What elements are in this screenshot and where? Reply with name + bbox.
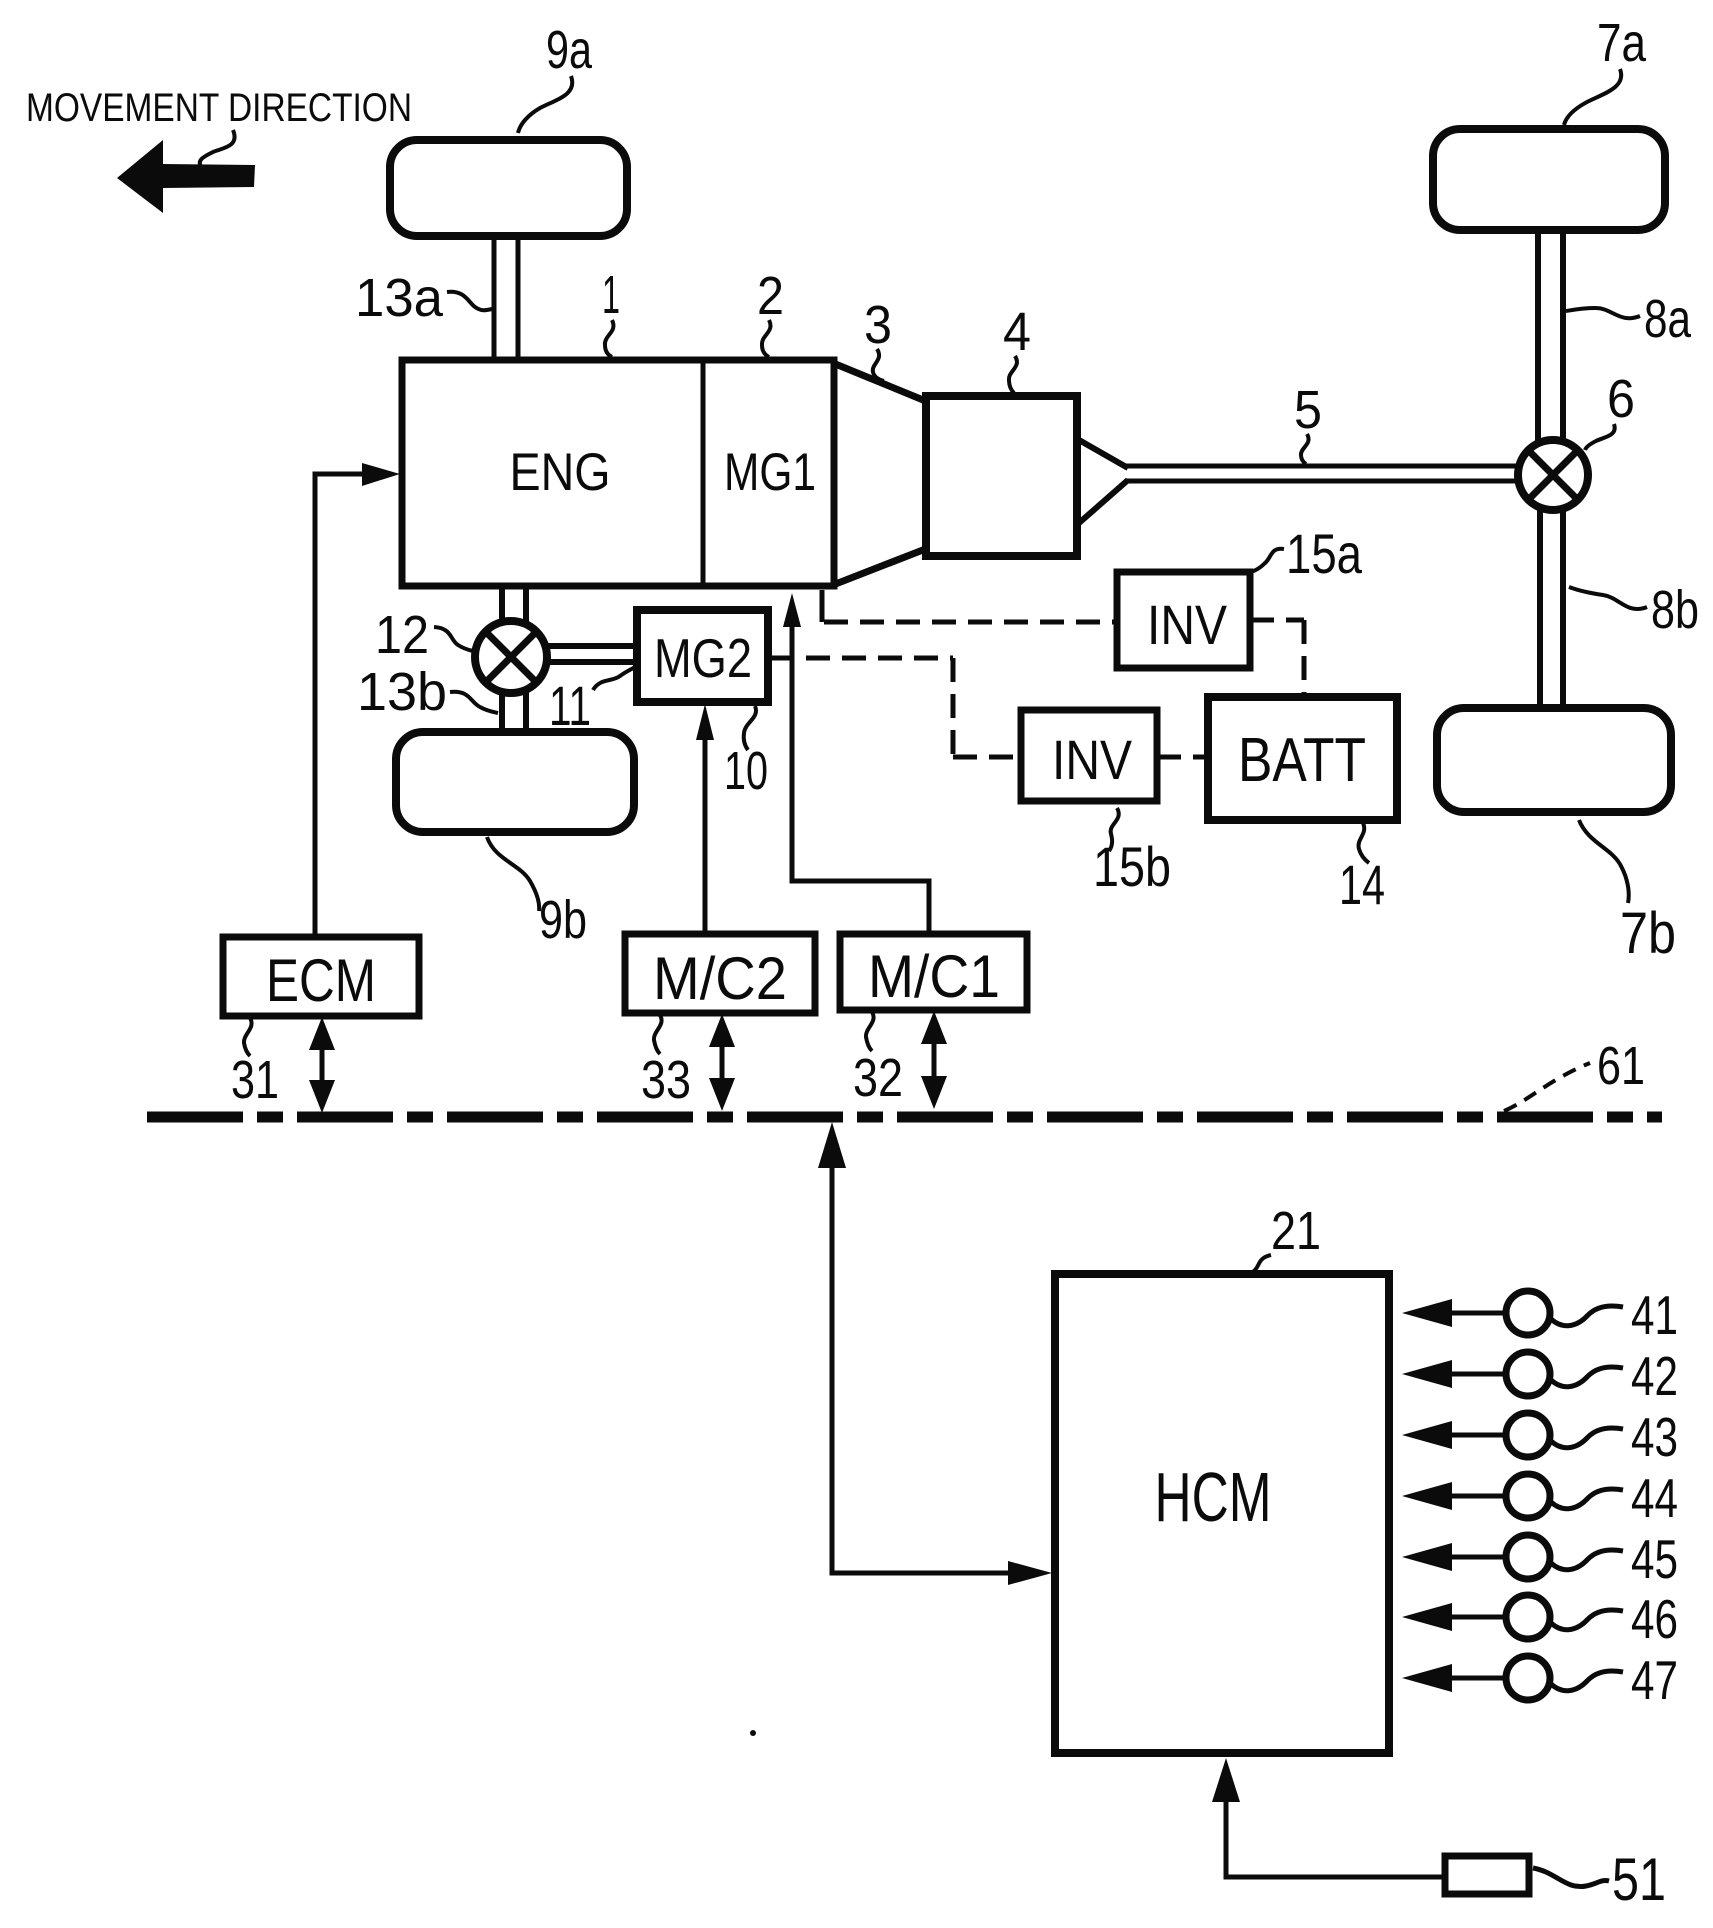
- leader 11: [593, 667, 635, 690]
- svg-text:13a: 13a: [355, 268, 444, 328]
- double arrow M/C2 to bus: [720, 1038, 725, 1090]
- leader 9a: [518, 76, 572, 133]
- leader 3: [873, 349, 884, 381]
- battery BATT box 14: [1208, 697, 1397, 820]
- leader 32: [866, 1012, 874, 1051]
- axle 8a: [1538, 234, 1563, 446]
- svg-text:32: 32: [853, 1048, 903, 1108]
- sensor box 51: [1445, 1856, 1529, 1894]
- svg-text:M/C2: M/C2: [653, 945, 787, 1012]
- svg-text:6: 6: [1607, 369, 1635, 429]
- leader 61: [1504, 1063, 1590, 1111]
- svg-text:13b: 13b: [357, 662, 447, 722]
- cone right of box 4: [1079, 440, 1128, 523]
- svg-text:31: 31: [231, 1050, 279, 1110]
- svg-text:7b: 7b: [1620, 901, 1676, 966]
- controller M/C2 box: [625, 934, 815, 1013]
- svg-text:44: 44: [1631, 1467, 1678, 1529]
- sensor circle 44: [1506, 1474, 1550, 1518]
- sensor circle 41: [1506, 1291, 1550, 1335]
- svg-text:M/C1: M/C1: [868, 943, 1000, 1010]
- leader 31: [244, 1018, 252, 1056]
- leader 15b: [1109, 808, 1119, 851]
- leader 41: [1551, 1306, 1623, 1326]
- svg-text:BATT: BATT: [1238, 726, 1366, 795]
- svg-text:15a: 15a: [1286, 522, 1363, 585]
- leader 46: [1551, 1610, 1623, 1630]
- divider ENG/MG1: [701, 362, 706, 584]
- movement direction arrow: [117, 140, 255, 213]
- wheel 9a: [390, 140, 627, 236]
- svg-text:21: 21: [1271, 1201, 1321, 1261]
- motor MG2 box: [637, 610, 768, 702]
- wire M/C1 to ENG with arrow: [792, 624, 929, 934]
- controller M/C1 box: [840, 934, 1027, 1010]
- trapezoid 3 top slope: [833, 363, 928, 402]
- leader 47: [1551, 1671, 1623, 1691]
- clutch box 4: [926, 396, 1077, 556]
- leader 43: [1551, 1428, 1623, 1448]
- dashed wire INV 15a to BATT: [1250, 620, 1304, 697]
- leader 45: [1551, 1550, 1623, 1570]
- controller ECM box: [223, 937, 419, 1016]
- wire sensor 41 to HCM with arrow: [1450, 1311, 1507, 1316]
- svg-text:15b: 15b: [1093, 835, 1171, 898]
- bus line 61: [147, 1112, 1662, 1123]
- sensor circle 46: [1506, 1595, 1550, 1639]
- svg-text:3: 3: [864, 295, 892, 355]
- svg-text:42: 42: [1631, 1345, 1678, 1407]
- wire 51 to HCM with arrow: [1226, 1800, 1442, 1877]
- leader 13b: [450, 692, 498, 713]
- wire sensor 44 to HCM with arrow: [1450, 1494, 1507, 1499]
- leader 7b: [1579, 820, 1629, 903]
- wire sensor 42 to HCM with arrow: [1450, 1372, 1507, 1377]
- svg-text:41: 41: [1631, 1284, 1678, 1346]
- leader 33: [654, 1015, 662, 1054]
- leader 6: [1585, 424, 1615, 450]
- svg-text:9b: 9b: [539, 890, 587, 950]
- leader 51: [1533, 1868, 1609, 1887]
- svg-text:46: 46: [1631, 1588, 1678, 1650]
- leader 14: [1359, 823, 1369, 863]
- svg-text:14: 14: [1339, 853, 1385, 916]
- leader 7a: [1564, 69, 1621, 125]
- leader 42: [1551, 1367, 1623, 1387]
- differential 6: [1518, 440, 1588, 510]
- svg-text:61: 61: [1597, 1036, 1645, 1096]
- leader 44: [1551, 1489, 1623, 1509]
- propeller shaft 5: [1126, 466, 1540, 481]
- leader from text to arrow: [200, 130, 235, 167]
- svg-text:ENG: ENG: [510, 443, 611, 502]
- trapezoid 3 bottom slope: [833, 548, 928, 585]
- wire M/C2 to MG2 with arrow: [703, 730, 708, 934]
- svg-text:ECM: ECM: [266, 947, 376, 1014]
- transfer 12 circle: [475, 621, 547, 693]
- dashed wire INV 15b to BATT: [1157, 755, 1208, 760]
- wheel 9b: [396, 732, 634, 832]
- svg-text:MG1: MG1: [724, 443, 816, 502]
- svg-text:HCM: HCM: [1155, 1458, 1272, 1536]
- engine ENG box 1: [402, 360, 834, 586]
- dashed wire MG2 to INV 15b: [770, 658, 1021, 757]
- svg-text:1: 1: [602, 265, 620, 325]
- svg-text:33: 33: [641, 1050, 691, 1110]
- leader 10: [744, 706, 756, 750]
- svg-text:47: 47: [1631, 1649, 1678, 1711]
- svg-text:9a: 9a: [546, 20, 593, 80]
- axle 13a: [494, 237, 518, 362]
- inverter INV 15a box: [1117, 572, 1250, 668]
- leader 8b: [1569, 587, 1647, 609]
- svg-text:45: 45: [1631, 1528, 1678, 1590]
- inverter INV 15b box: [1021, 710, 1157, 801]
- leader 8a: [1566, 308, 1640, 318]
- wire ECM to ENG with arrow: [315, 474, 362, 937]
- wheel 7b: [1437, 708, 1671, 812]
- sensor circle 47: [1506, 1656, 1550, 1700]
- shaft 11 double line: [546, 646, 639, 662]
- wire sensor 45 to HCM with arrow: [1450, 1555, 1507, 1560]
- wheel 7a: [1433, 129, 1665, 230]
- leader 9b: [487, 837, 539, 911]
- svg-text:MG2: MG2: [654, 627, 752, 689]
- svg-text:11: 11: [549, 674, 591, 737]
- dashed wire MG1 to INV 15a: [820, 590, 825, 622]
- axle 8b: [1540, 504, 1563, 710]
- leader 2: [762, 320, 771, 357]
- svg-text:INV: INV: [1147, 593, 1228, 656]
- wire sensor 46 to HCM with arrow: [1450, 1615, 1507, 1620]
- svg-text:7a: 7a: [1597, 13, 1647, 73]
- leader 13a: [447, 292, 492, 310]
- leader 1: [605, 320, 614, 357]
- leader 4: [1009, 356, 1017, 393]
- sensor circle 43: [1506, 1413, 1550, 1457]
- axle 13b: [502, 589, 526, 733]
- leader 15a: [1251, 549, 1284, 572]
- leader 5: [1301, 434, 1309, 464]
- controller HCM box 21: [1055, 1274, 1389, 1753]
- svg-text:2: 2: [757, 266, 784, 326]
- wire bus to HCM with arrows: [832, 1160, 1008, 1573]
- leader 21: [1247, 1255, 1271, 1274]
- svg-text:4: 4: [1003, 302, 1031, 362]
- stray dot: [750, 1730, 756, 1736]
- svg-text:12: 12: [375, 605, 429, 665]
- svg-text:43: 43: [1631, 1406, 1678, 1468]
- sensor circle 45: [1506, 1535, 1550, 1579]
- svg-text:51: 51: [1612, 1846, 1666, 1913]
- leader 12: [434, 627, 473, 651]
- double arrow M/C1 to bus: [932, 1036, 937, 1088]
- svg-text:MOVEMENT DIRECTION: MOVEMENT DIRECTION: [26, 86, 412, 130]
- sensor circle 42: [1506, 1352, 1550, 1396]
- svg-text:5: 5: [1294, 380, 1322, 440]
- wire sensor 43 to HCM with arrow: [1450, 1433, 1507, 1438]
- svg-text:INV: INV: [1052, 728, 1133, 791]
- svg-text:8b: 8b: [1651, 580, 1699, 640]
- wire sensor 47 to HCM with arrow: [1450, 1676, 1507, 1681]
- svg-text:8a: 8a: [1644, 289, 1692, 349]
- double arrow ECM to bus: [320, 1040, 325, 1092]
